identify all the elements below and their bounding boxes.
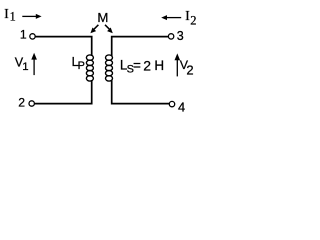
svg-text:3: 3 xyxy=(177,29,184,43)
svg-text:=: = xyxy=(133,58,141,73)
svg-text:1: 1 xyxy=(22,61,28,73)
svg-text:I: I xyxy=(4,6,8,21)
svg-text:P: P xyxy=(78,60,85,72)
svg-text:M: M xyxy=(97,10,108,25)
svg-text:2: 2 xyxy=(143,57,151,73)
svg-text:H: H xyxy=(154,58,164,73)
svg-text:2: 2 xyxy=(186,63,193,78)
svg-text:2: 2 xyxy=(190,13,196,27)
svg-text:2: 2 xyxy=(18,96,25,110)
svg-text:4: 4 xyxy=(178,99,185,114)
svg-text:1: 1 xyxy=(20,27,27,41)
svg-text:I: I xyxy=(185,8,189,23)
svg-text:1: 1 xyxy=(10,10,16,24)
